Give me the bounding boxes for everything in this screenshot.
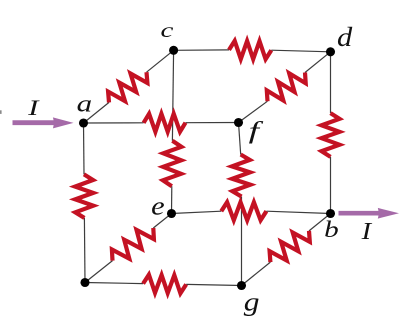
resistor R1 (a-c) (108, 72, 147, 102)
wire c-d segment at node d (271, 50, 330, 52)
resistor R12 (g-b) (270, 231, 310, 262)
wire f-g segment at node f (239, 123, 241, 155)
svg-text:e: e (151, 192, 165, 220)
current arrow I (output, right) (339, 208, 400, 219)
svg-text:a: a (77, 90, 92, 117)
svg-text:d: d (337, 22, 353, 52)
resistor R11 (h-e) (112, 228, 154, 261)
wire e-b segment at node e (172, 211, 222, 213)
node a (79, 118, 88, 127)
resistor R5 (a-h) (75, 174, 93, 218)
small scan artifact at left edge (0, 110, 2, 114)
wire f-g segment at node g (241, 197, 243, 286)
node bottom-left (unlabeled) (80, 278, 89, 287)
resistor R4 (a-f) (144, 114, 186, 132)
wire f-d segment at node d (305, 52, 331, 73)
resistor R8 (d-b) (322, 113, 340, 157)
wire a-c segment at node c (147, 50, 174, 72)
wire d-b segment at node b (330, 157, 332, 214)
resistor R2 (c-d) (229, 41, 271, 59)
node b (326, 209, 335, 218)
wire g-b segment at node b (309, 214, 331, 231)
current arrow I (input, left) (13, 117, 74, 128)
wire f-d segment at node f (239, 101, 268, 122)
node d (326, 47, 335, 56)
wire a-h segment at node h (83, 218, 86, 283)
wire e-b segment at node b (266, 211, 330, 213)
svg-text:g: g (244, 288, 260, 317)
resistor R7 (f-g) (232, 155, 250, 197)
wire h-g segment at node h (85, 283, 143, 284)
resistor R9 (e-b) (221, 202, 266, 220)
svg-text:b: b (324, 217, 339, 242)
svg-text:I: I (361, 217, 373, 245)
wire c-e segment at node c (172, 50, 173, 141)
svg-text:I: I (27, 95, 40, 120)
wire g-b segment at node g (242, 262, 271, 285)
wire c-e segment at node e (171, 186, 173, 213)
node c (169, 46, 178, 55)
svg-text:c: c (161, 20, 174, 42)
resistor R6 (c-e) (163, 141, 182, 187)
wire a-h segment at node a (83, 123, 86, 174)
wire c-d segment at node c (174, 49, 229, 51)
wire d-b segment at node d (330, 52, 332, 113)
wire a-f segment at node f (186, 122, 239, 124)
wire h-g segment at node g (186, 284, 241, 285)
node e (167, 209, 176, 218)
node f (234, 118, 243, 127)
wire a-f segment at node a (84, 122, 144, 124)
node g (237, 281, 246, 290)
resistor R10 (h-g) (143, 275, 186, 294)
wire h-e segment at node e (153, 214, 171, 229)
resistor R3 (f-d) (267, 73, 306, 102)
wire a-c segment at node a (84, 102, 110, 123)
wire h-e segment at node h (85, 261, 113, 283)
